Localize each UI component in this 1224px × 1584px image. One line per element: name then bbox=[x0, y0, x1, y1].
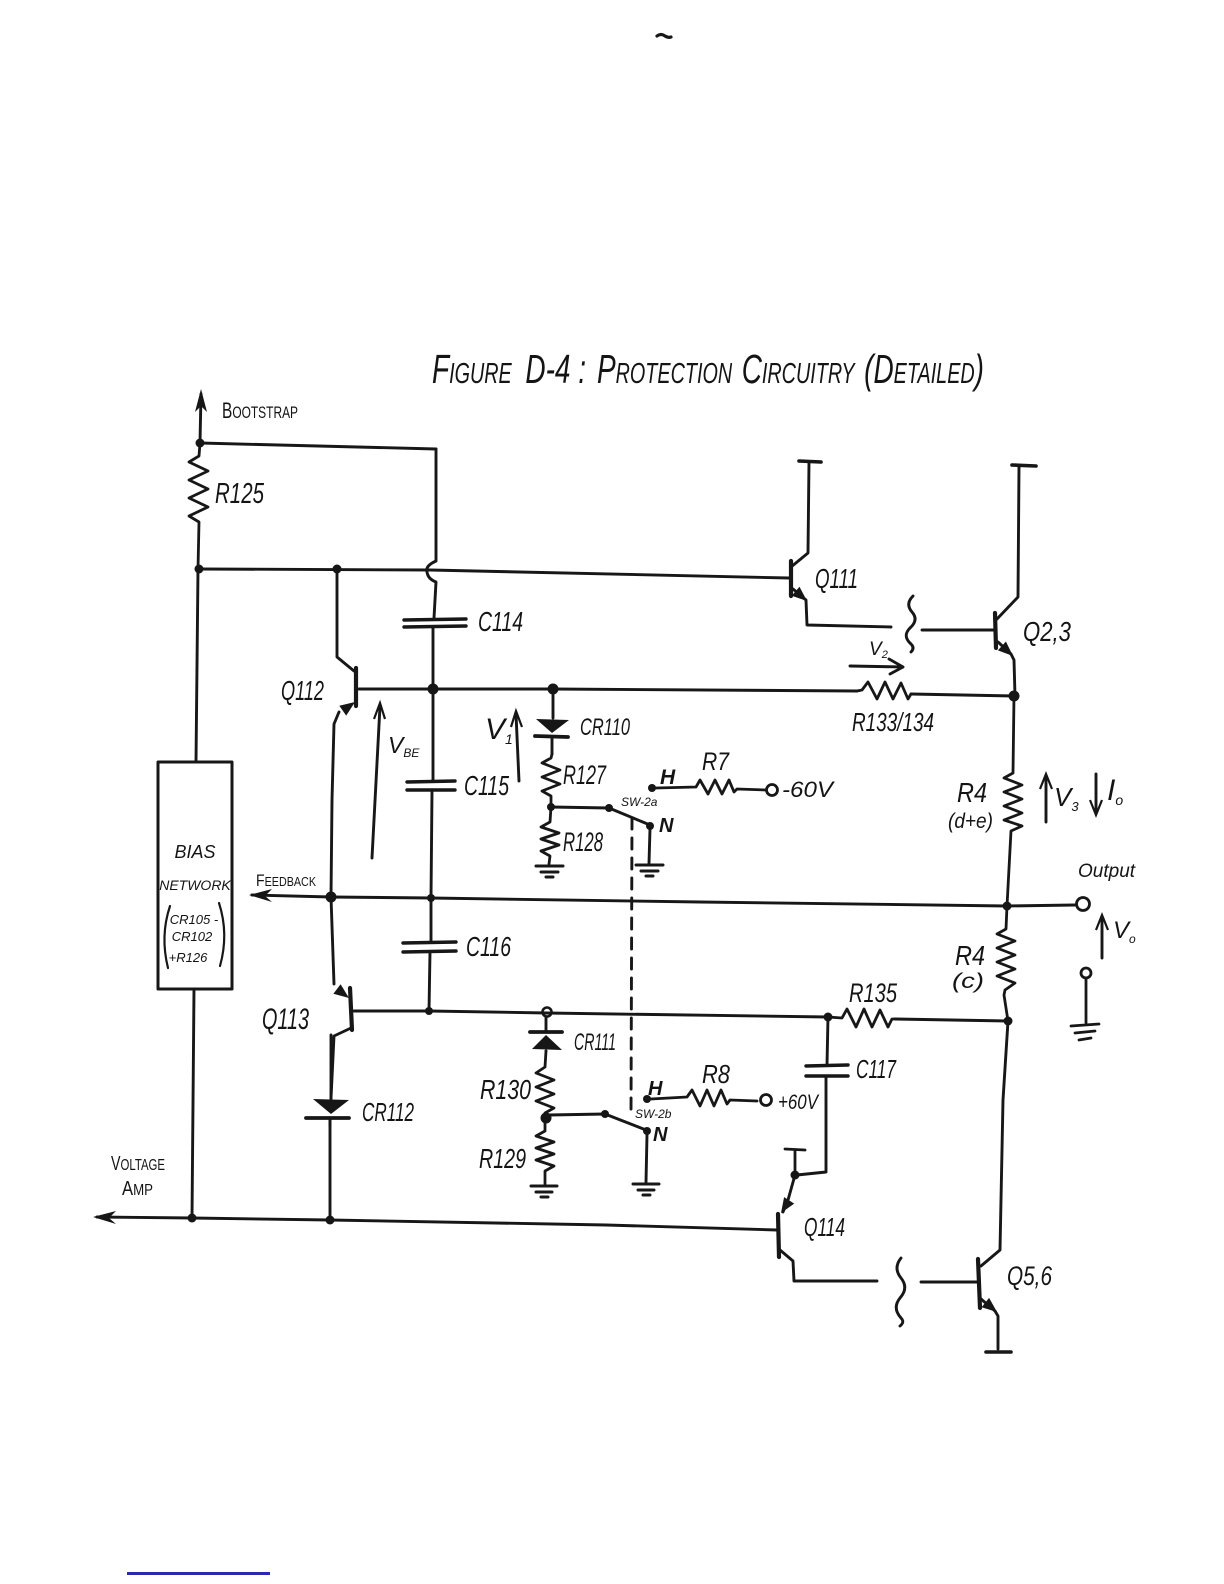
blue line bottom left bbox=[127, 1572, 270, 1575]
svg-text:R135: R135 bbox=[849, 978, 898, 1008]
I0 arrowhead down bbox=[1090, 800, 1102, 815]
node dot SW-2b pivot bbox=[601, 1110, 609, 1118]
dashed switch linkage line bbox=[631, 818, 632, 1113]
Q2,3 emitter arrowhead bbox=[998, 642, 1013, 657]
wire emitter chain Q112-feedback-Q113 bbox=[331, 712, 339, 984]
Q111 supply bar bbox=[799, 461, 821, 462]
svg-text:R133/134: R133/134 bbox=[852, 707, 934, 737]
svg-text:+R126: +R126 bbox=[169, 950, 208, 965]
svg-text:R4: R4 bbox=[957, 777, 987, 808]
svg-text:NETWORK: NETWORK bbox=[159, 877, 231, 893]
svg-text:Q5,6: Q5,6 bbox=[1007, 1261, 1053, 1291]
transistor Q111 leads bbox=[791, 462, 891, 627]
ground under SW-2b N bbox=[633, 1184, 659, 1195]
resistor R135 horizontal bbox=[828, 1009, 895, 1027]
wire node690 to C115 top bbox=[432, 689, 435, 781]
resistor R125 bbox=[189, 443, 208, 569]
svg-text:R8: R8 bbox=[702, 1059, 730, 1089]
svg-text:Q112: Q112 bbox=[281, 675, 324, 706]
ground under R129 bbox=[531, 1186, 557, 1197]
svg-text:C115: C115 bbox=[464, 770, 509, 801]
resistor R7 horizontal bbox=[656, 780, 766, 794]
capacitor C117 bbox=[806, 1065, 848, 1076]
Q113 emitter arrowhead bbox=[333, 984, 349, 998]
output terminal circle bbox=[1077, 898, 1090, 911]
wire C116 bottom to Q113 base line bbox=[429, 952, 430, 1011]
node CR111 open circle bbox=[543, 1008, 552, 1017]
svg-text:Q114: Q114 bbox=[804, 1212, 845, 1242]
ground under SW-2a N bbox=[636, 865, 663, 876]
transistor Q2,3 body bbox=[995, 613, 996, 648]
+60V terminal circle bbox=[761, 1095, 772, 1106]
svg-text:R127: R127 bbox=[563, 760, 607, 790]
svg-text:R4: R4 bbox=[955, 940, 985, 971]
svg-text:SW-2a: SW-2a bbox=[621, 795, 658, 809]
diode CR112 triangle bbox=[313, 1099, 349, 1114]
svg-text:SW-2b: SW-2b bbox=[635, 1107, 672, 1121]
diode CR112 leads bbox=[330, 1035, 331, 1126]
V1 arrow line bbox=[516, 714, 519, 781]
node dot bootstrap/R125 bbox=[196, 439, 205, 448]
node dot SW-2a H bbox=[648, 784, 656, 792]
node dot R135 right bbox=[1004, 1017, 1013, 1026]
Q5,6 emitter arrowhead bbox=[982, 1298, 997, 1312]
svg-text:N: N bbox=[659, 815, 674, 837]
node dot C114/base bbox=[428, 684, 439, 695]
wire left vertical lower (bias box to voltage-amp wire) bbox=[192, 989, 194, 1218]
Q111 emitter arrowhead bbox=[792, 587, 807, 601]
wire to Q5,6 base bbox=[921, 1281, 977, 1284]
svg-text:CR102: CR102 bbox=[172, 929, 213, 944]
svg-text:AMP: AMP bbox=[122, 1178, 153, 1200]
squiggle break Q114-Q5,6 bbox=[896, 1258, 905, 1326]
svg-text:+60V: +60V bbox=[778, 1091, 820, 1114]
stray ink mark top bbox=[657, 35, 671, 38]
V3 arrow line bbox=[1045, 777, 1048, 822]
resistor R8 horizontal bbox=[651, 1090, 757, 1106]
node dot R130/R129 bbox=[541, 1113, 552, 1124]
wire main horizontal y=569 to Q111 base bbox=[200, 569, 789, 578]
svg-text:N: N bbox=[653, 1124, 668, 1146]
capacitor C116 bbox=[403, 942, 456, 952]
node dot CR110 branch bbox=[548, 684, 559, 695]
V2 arrow bbox=[850, 659, 903, 674]
V_BE arrowhead bbox=[374, 703, 385, 719]
svg-text:(d+e): (d+e) bbox=[948, 810, 993, 833]
node dot SW-2b N bbox=[643, 1127, 651, 1135]
wire feedback horizontal bbox=[252, 895, 1075, 906]
diode CR112 cathode bar bbox=[306, 1116, 349, 1120]
node dot R127/R128 bbox=[547, 803, 555, 811]
resistor R4 (d+e) bbox=[1004, 696, 1022, 906]
capacitor C114 bbox=[404, 619, 466, 627]
diode CR110 cathode bar bbox=[535, 736, 568, 737]
resistor R127 bbox=[542, 754, 560, 807]
output reference small circle bbox=[1081, 968, 1091, 978]
wire R133 right to node bbox=[911, 694, 1014, 696]
resistor R133/134 horizontal bbox=[857, 682, 911, 699]
svg-text:VOLTAGE: VOLTAGE bbox=[111, 1153, 165, 1175]
V_BE arrow line bbox=[372, 706, 380, 858]
bootstrap arrow line bbox=[200, 394, 201, 443]
node dot voltage-amp CR112 bbox=[326, 1216, 335, 1225]
node dot output junction bbox=[1003, 902, 1012, 911]
wire to Q2,3 base bbox=[922, 629, 994, 632]
svg-text:CR111: CR111 bbox=[574, 1029, 616, 1056]
diode CR111 leads bbox=[545, 1017, 548, 1051]
bootstrap arrowhead bbox=[195, 389, 207, 412]
svg-text:R125: R125 bbox=[215, 478, 265, 510]
svg-text:-60V: -60V bbox=[782, 777, 836, 802]
V0 arrowhead bbox=[1096, 915, 1108, 930]
wire CR112 to voltage amp wire bbox=[329, 1120, 332, 1220]
svg-text:C116: C116 bbox=[466, 931, 511, 962]
ground under R128 bbox=[536, 866, 563, 877]
svg-text:C117: C117 bbox=[856, 1054, 897, 1084]
ground at output reference bbox=[1071, 978, 1099, 1040]
node dot R133 right bbox=[1009, 691, 1020, 702]
wire bootstrap top horizontal bbox=[200, 443, 436, 449]
switch SW-2b wire and arm bbox=[549, 1114, 646, 1130]
resistor R129 bbox=[536, 1118, 554, 1184]
diode CR110 triangle bbox=[536, 719, 569, 733]
svg-text:R129: R129 bbox=[479, 1143, 526, 1174]
svg-text:Output: Output bbox=[1078, 861, 1136, 882]
node dot feedback/C115 bbox=[427, 894, 435, 902]
wire feedback to C116 top bbox=[430, 898, 433, 942]
transistor Q2,3 leads bbox=[997, 467, 1019, 696]
Q114 emitter arrowhead bbox=[781, 1197, 794, 1213]
svg-text:(c): (c) bbox=[952, 970, 984, 993]
V1 arrowhead bbox=[511, 711, 522, 727]
squiggle break Q111-Q2,3 bbox=[906, 596, 915, 652]
filled shapes: node dots, arrowheads, diode triangles bbox=[93, 389, 1108, 1312]
wire Q112 collector drop bbox=[337, 570, 354, 671]
transistor Q112 body bbox=[354, 668, 358, 706]
Q5,6 bottom bar bbox=[986, 1350, 1011, 1354]
wire Q113 base line bbox=[354, 1011, 828, 1017]
wire Q113 collector to CR112 bbox=[331, 1028, 351, 1098]
svg-text:Q2,3: Q2,3 bbox=[1023, 616, 1071, 647]
wire C117 leads bbox=[797, 1017, 828, 1175]
wire base line y=690 Q112 to R133 bbox=[359, 689, 857, 691]
Q112 emitter arrowhead bbox=[339, 702, 355, 716]
node dot Q112 collector bbox=[333, 565, 342, 574]
node dot SW-2a pivot bbox=[605, 804, 613, 812]
resistor R128 bbox=[541, 807, 559, 864]
SW-2a N drop bbox=[649, 829, 650, 863]
SW-2b N drop bbox=[646, 1135, 647, 1182]
wire R135 right to node bbox=[895, 1019, 1008, 1021]
bias box big parentheses bbox=[164, 906, 170, 968]
bias network box bbox=[158, 762, 232, 989]
resistor R130 bbox=[536, 1051, 554, 1118]
wire left vertical upper (R125 bottom to bias box) bbox=[196, 569, 198, 762]
node dot feedback/emitter bbox=[326, 892, 337, 903]
wire C114 vertical upper with hop over y=570 wire bbox=[427, 449, 436, 618]
wire C114-C115 column: C114 bottom to node690 bbox=[432, 627, 435, 689]
svg-text:FEEDBACK: FEEDBACK bbox=[256, 871, 316, 890]
svg-text:R7: R7 bbox=[702, 748, 730, 776]
transistor Q114 leads bbox=[780, 1175, 877, 1281]
node dot SW-2b H bbox=[643, 1095, 651, 1103]
feedback arrowhead bbox=[249, 889, 272, 902]
diode CR111 cathode bar bbox=[530, 1030, 562, 1034]
V3 arrowhead bbox=[1040, 774, 1052, 789]
Q2,3 supply bar bbox=[1012, 465, 1036, 466]
node dot Q113 base/C116 bbox=[425, 1007, 433, 1015]
svg-text:H: H bbox=[660, 766, 676, 789]
node dot Q114 emitter top bbox=[791, 1171, 800, 1180]
Q114 supply bar + drop bbox=[785, 1149, 805, 1172]
svg-text:C114: C114 bbox=[478, 606, 523, 637]
svg-text:BIAS: BIAS bbox=[174, 842, 215, 862]
switch SW-2a wire and arm bbox=[551, 807, 650, 825]
diode CR110 leads bbox=[552, 689, 553, 754]
transistor Q5,6 body bbox=[978, 1259, 980, 1308]
svg-text:CR112: CR112 bbox=[362, 1097, 414, 1127]
voltage-amp arrowhead bbox=[93, 1211, 116, 1224]
V0 arrow line bbox=[1101, 918, 1104, 958]
capacitor C115 bbox=[407, 781, 455, 790]
svg-text:CR110: CR110 bbox=[580, 714, 630, 741]
transistor Q5,6 leads bbox=[981, 1021, 1008, 1349]
wire voltage amp horizontal bbox=[97, 1217, 777, 1230]
node dot R135 left bbox=[824, 1013, 833, 1022]
transistor Q111 body bbox=[789, 561, 793, 596]
node dot SW-2a N bbox=[646, 822, 654, 830]
svg-text:H: H bbox=[648, 1078, 663, 1100]
svg-text:CR105 -: CR105 - bbox=[170, 912, 219, 927]
node dot voltage-amp left bbox=[188, 1214, 197, 1223]
svg-text:R128: R128 bbox=[563, 827, 603, 857]
I0 arrow line bbox=[1095, 774, 1098, 812]
diode CR111 triangle bbox=[532, 1035, 562, 1050]
svg-text:R130: R130 bbox=[480, 1074, 531, 1105]
-60V terminal circle bbox=[767, 785, 778, 796]
svg-text:Q113: Q113 bbox=[262, 1003, 309, 1036]
svg-text:Q111: Q111 bbox=[815, 563, 858, 594]
transistor Q114 body bbox=[778, 1214, 779, 1257]
wire C115 bottom to feedback bbox=[431, 791, 432, 898]
resistor R4 (c) bbox=[997, 906, 1015, 1021]
node dot left y569 bbox=[195, 565, 204, 574]
transistor Q113 body bbox=[350, 988, 352, 1030]
